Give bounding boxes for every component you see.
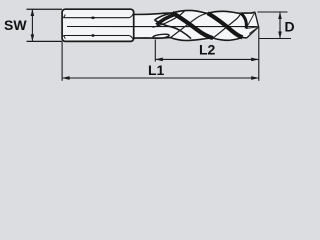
svg-text:SW: SW xyxy=(4,17,27,33)
svg-text:D: D xyxy=(285,18,295,34)
svg-text:L2: L2 xyxy=(199,42,216,58)
svg-text:L1: L1 xyxy=(148,62,165,78)
